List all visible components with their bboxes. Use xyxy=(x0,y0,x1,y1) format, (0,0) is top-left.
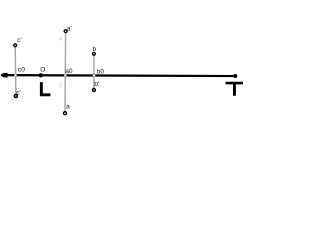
point b0 (on line L) xyxy=(93,74,96,77)
line L (horizontal) xyxy=(2,74,235,77)
point a (bottom of segment a) xyxy=(64,112,67,115)
point at right end of line L xyxy=(233,74,237,78)
point b (top of segment b) xyxy=(93,52,96,55)
point a0 (on line L) xyxy=(64,74,67,77)
label L xyxy=(40,82,51,96)
svg-text:b: b xyxy=(93,46,97,53)
svg-text:c0: c0 xyxy=(18,67,25,74)
point O xyxy=(39,73,43,77)
svg-text:4: 4 xyxy=(59,36,63,43)
svg-text:3: 3 xyxy=(58,83,62,90)
arrowhead at left end of line L xyxy=(1,73,8,77)
label T xyxy=(226,82,244,96)
segment c (vertical line through c0) xyxy=(14,45,17,96)
point c' (top of segment c) xyxy=(14,44,17,47)
segment b (vertical line through b0) xyxy=(93,54,95,90)
point a' (top of segment a) xyxy=(64,30,67,33)
svg-text:c': c' xyxy=(16,89,21,96)
point c0 (on line L) xyxy=(14,74,17,77)
svg-text:a0: a0 xyxy=(65,68,73,75)
point b' (bottom of segment b) xyxy=(92,89,95,92)
segment a (vertical line through a0) xyxy=(64,31,67,113)
svg-text:c': c' xyxy=(17,37,22,44)
svg-text:b0: b0 xyxy=(97,69,105,76)
svg-text:b': b' xyxy=(94,81,99,88)
point c (bottom of segment c) xyxy=(14,95,17,98)
svg-text:a': a' xyxy=(67,25,72,32)
svg-text:a: a xyxy=(66,104,70,111)
svg-text:O: O xyxy=(40,67,45,74)
